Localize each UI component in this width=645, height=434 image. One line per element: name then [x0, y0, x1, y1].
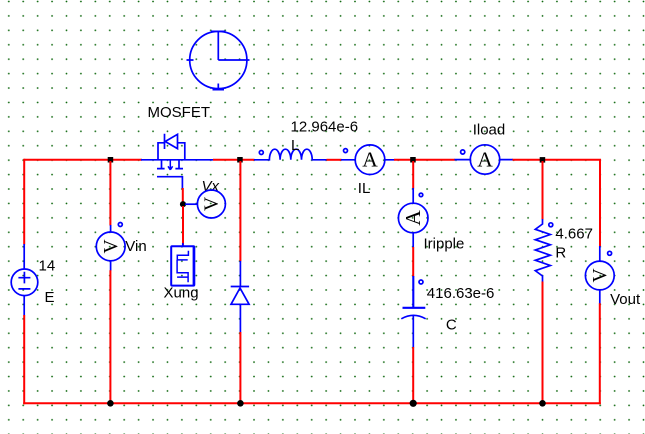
svg-text:416.63e-6: 416.63e-6 — [427, 285, 495, 302]
node junction bottom diode — [237, 400, 244, 407]
wire bottom rail — [23, 402, 601, 404]
ammeter Iload polarity marker — [461, 150, 465, 154]
wire Vin branch upper — [109, 161, 111, 226]
node junction bottom capacitor — [410, 400, 417, 407]
node junction R tap — [540, 157, 546, 163]
wire R branch upper — [542, 161, 544, 220]
pulse source Xung (square-wave gating source) — [171, 243, 194, 286]
svg-text:V: V — [590, 268, 611, 282]
voltmeter Vx — [197, 190, 225, 218]
svg-text:4.667: 4.667 — [555, 226, 593, 243]
svg-text:12.964e-6: 12.964e-6 — [291, 118, 359, 135]
wire top rail left (source to MOSFET drain) — [24, 159, 142, 161]
wire diode branch lower — [239, 332, 241, 403]
svg-text:Iload: Iload — [473, 122, 506, 139]
diode D1 — [231, 261, 249, 332]
node junction bottom Vin — [107, 400, 114, 407]
inductor L — [254, 149, 327, 160]
svg-text:C: C — [446, 317, 457, 334]
wire inductor to ammeter IL — [327, 159, 342, 161]
svg-text:A: A — [362, 148, 378, 172]
svg-text:MOSFET: MOSFET — [148, 104, 211, 121]
svg-text:V: V — [202, 197, 223, 211]
voltmeter Vout — [585, 246, 614, 304]
svg-text:R: R — [555, 245, 566, 262]
svg-text:IL: IL — [358, 180, 371, 197]
svg-text:A: A — [401, 210, 425, 226]
inductor L polarity marker — [259, 151, 263, 155]
wire Iripple to capacitor — [412, 247, 414, 277]
node junction bottom R — [539, 400, 546, 407]
voltage source E leads — [23, 244, 25, 316]
resistor R polarity marker — [549, 223, 553, 227]
voltmeter Vout polarity marker — [608, 251, 612, 255]
node gate junction — [180, 201, 186, 207]
ammeter Iripple polarity marker — [419, 193, 423, 197]
wire gate node to pulse source Xung — [182, 206, 184, 246]
svg-text:Xung: Xung — [164, 284, 199, 301]
wire IL to Iload (Iripple tap) — [394, 159, 455, 161]
voltmeter Vin polarity marker — [118, 223, 122, 227]
voltage source E — [11, 269, 38, 296]
ammeter Iripple — [398, 188, 428, 248]
svg-text:V: V — [101, 239, 122, 253]
wire diode branch upper — [239, 161, 241, 261]
wire Vout to bottom-right corner — [599, 303, 601, 404]
wire top rail MOSFET to inductor (diode tap) — [213, 159, 255, 161]
capacitor C polarity marker — [419, 280, 423, 284]
voltmeter Vin — [96, 225, 125, 271]
transistor Q1 MOSFET with body diode — [141, 134, 213, 189]
wire left rail down from top (to source E) — [23, 159, 25, 245]
svg-text:Iripple: Iripple — [424, 236, 465, 253]
wire Iload to top-right corner (R tap) — [513, 159, 601, 247]
node junction Iripple tap — [410, 157, 416, 163]
ammeter IL polarity marker — [344, 149, 348, 153]
clock icon — [187, 31, 250, 90]
ammeter IL — [341, 145, 395, 175]
wire gate node to Vx voltmeter — [185, 203, 197, 205]
node junction diode tap — [237, 157, 243, 163]
wire MOSFET gate down to gate node — [182, 188, 184, 203]
wire Iripple branch upper — [412, 161, 414, 189]
wire Vin branch lower — [109, 270, 111, 403]
resistor R — [535, 219, 550, 282]
svg-text:Vin: Vin — [125, 238, 146, 255]
svg-text:L: L — [291, 137, 299, 154]
wire capacitor to bottom rail — [412, 347, 414, 403]
svg-text:Vout: Vout — [610, 291, 641, 308]
wire R branch lower — [542, 282, 544, 404]
svg-text:14: 14 — [39, 257, 56, 274]
wire left rail below E to bottom rail — [23, 315, 25, 404]
svg-text:A: A — [477, 148, 493, 172]
ammeter Iload — [455, 145, 514, 174]
svg-text:E: E — [45, 289, 55, 306]
node junction Vin tap on top rail — [108, 157, 114, 163]
capacitor C — [401, 276, 425, 348]
